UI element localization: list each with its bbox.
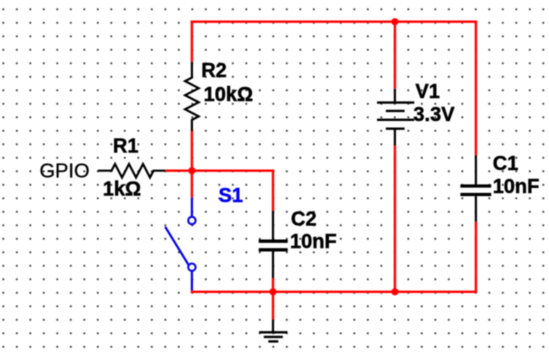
wire C2 bottom to ground node bbox=[272, 278, 274, 292]
wire node to S1 bbox=[191, 171, 193, 198]
wire right vertical upper bbox=[475, 21, 477, 156]
wire ground stub bbox=[272, 292, 274, 320]
junction bottom C2/ground bbox=[269, 288, 276, 295]
wire bottom horizontal bbox=[191, 291, 477, 293]
wire R1 to node bbox=[165, 169, 192, 171]
svg-text:10nF: 10nF bbox=[493, 176, 540, 198]
svg-text:3.3V: 3.3V bbox=[413, 104, 455, 126]
wire C2 top vertical bbox=[272, 170, 274, 211]
wire R2 bottom to node bbox=[191, 131, 193, 171]
wire right vertical lower bbox=[475, 222, 477, 293]
wire node to C2 horizontal bbox=[191, 169, 275, 171]
junction bottom V1 bbox=[391, 288, 398, 295]
junction node A (R1/R2/S1) bbox=[188, 167, 195, 174]
svg-text:S1: S1 bbox=[219, 185, 243, 207]
wire V1 bottom vertical bbox=[394, 145, 396, 291]
wire V1 top vertical bbox=[394, 22, 396, 89]
svg-text:10kΩ: 10kΩ bbox=[204, 84, 253, 106]
wire top-left vertical to R2 bbox=[191, 21, 193, 62]
ground bbox=[259, 320, 287, 342]
svg-text:R1: R1 bbox=[113, 135, 139, 157]
svg-text:C1: C1 bbox=[493, 153, 519, 175]
svg-text:1kΩ: 1kΩ bbox=[103, 179, 141, 201]
svg-text:V1: V1 bbox=[415, 81, 439, 103]
junction top V1 bbox=[391, 18, 398, 25]
svg-text:R2: R2 bbox=[201, 60, 227, 82]
wire top horizontal bbox=[191, 21, 477, 23]
svg-text:C2: C2 bbox=[291, 208, 317, 230]
capacitor C2 bbox=[259, 211, 288, 279]
resistor R1 bbox=[98, 164, 165, 178]
capacitor C1 bbox=[460, 156, 491, 222]
svg-text:10nF: 10nF bbox=[290, 231, 337, 253]
svg-text:GPIO: GPIO bbox=[40, 160, 90, 182]
battery V1 bbox=[377, 89, 414, 145]
resistor R2 bbox=[185, 62, 199, 131]
switch S1 bbox=[165, 198, 195, 291]
